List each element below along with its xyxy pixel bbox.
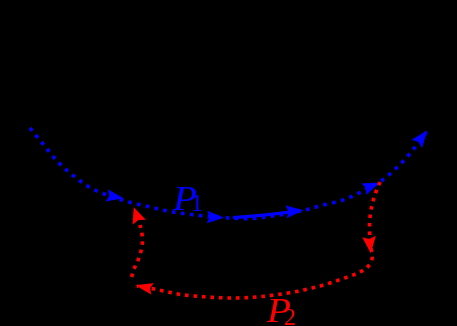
arrowhead at end of path P1 (top-right) — [412, 131, 428, 149]
path P1 (blue dotted trajectory curve) — [30, 128, 427, 219]
solid displacement-vector arrow shaft — [233, 211, 296, 217]
path P2 (red dotted return loop: right side and bottom arc) — [137, 182, 380, 298]
solid displacement-vector arrow head — [286, 205, 304, 218]
label P2 — [267, 293, 291, 326]
arrowhead on path P1 (right, pointing up-right) — [361, 183, 379, 195]
label P1 subscript 1 — [191, 192, 203, 216]
arrowhead on path P1 (left, pointing right-down) — [106, 189, 124, 201]
label P2 subscript 2 — [284, 306, 296, 326]
arrowhead on path P2 (bottom-left, pointing left) — [135, 283, 153, 295]
path P2 left rising segment — [132, 225, 143, 277]
arrowhead on path P2 (left side, pointing up) — [133, 207, 146, 224]
arrowhead on path P1 (center-left, pointing right) — [207, 211, 224, 223]
label P1 — [173, 181, 197, 216]
arrowhead on path P2 (right side, pointing down) — [362, 236, 376, 254]
